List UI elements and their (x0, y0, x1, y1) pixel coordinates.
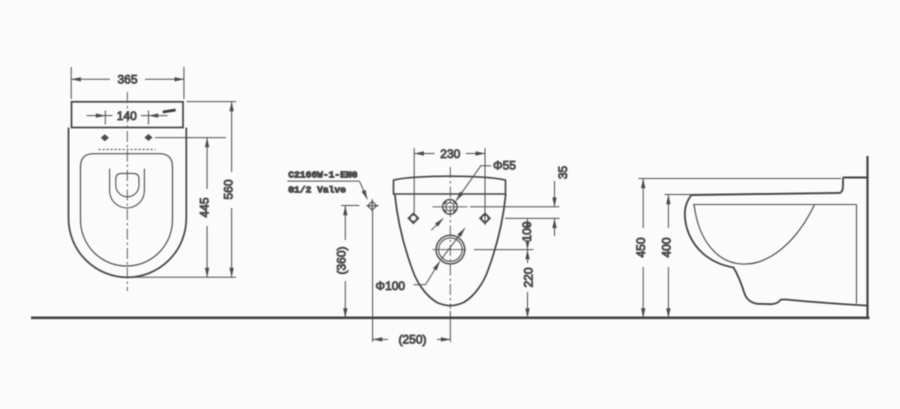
back panel vertical line (856, 205, 858, 304)
dim (250) dimension line (373, 338, 388, 340)
dim 445 top extension (leader from right hole) (155, 137, 226, 139)
dim 220 dimension line (527, 250, 529, 263)
dim 365 dimension line with arrows (71, 78, 110, 80)
inner water bowl (116, 173, 139, 196)
svg-text:560: 560 (222, 179, 236, 199)
svg-text:35: 35 (556, 166, 570, 180)
inner bowl U channel (110, 169, 145, 208)
water inlet flange ring (phi55) (443, 200, 458, 215)
svg-text:(250): (250) (398, 333, 426, 347)
dim (360) dimension line (344, 206, 346, 241)
dim 140 outside arrows (87, 115, 106, 117)
dim 35 outside arrows (554, 181, 556, 207)
svg-text:100: 100 (520, 221, 534, 241)
extension line at hole level to right stack (505, 217, 560, 219)
phi55 horizontal centerline (433, 206, 468, 208)
dim 560 top extension line (187, 101, 237, 103)
svg-text:365: 365 (117, 73, 137, 87)
svg-text:(360): (360) (335, 246, 349, 274)
dim 100 dimension line (527, 218, 529, 224)
outlet circle phi100 (436, 235, 465, 264)
flush button dash mark (163, 110, 176, 112)
svg-text:230: 230 (440, 147, 460, 161)
phi55 lower-left pointer arrow (431, 219, 443, 231)
mounting hole diamond right (144, 134, 152, 141)
outer bowl and trap profile (685, 195, 869, 306)
dim 365 extension lines (70, 67, 72, 99)
dim 445 dimension line (206, 138, 208, 189)
dim 230 extension lines (413, 148, 415, 213)
svg-text:450: 450 (634, 237, 648, 257)
body back top edge at wall (843, 177, 869, 179)
model number underline (287, 180, 359, 182)
svg-text:C2166W-1-ENG: C2166W-1-ENG (288, 170, 357, 181)
step from back top to seat line (840, 178, 844, 193)
bowl outer body outline (69, 128, 187, 278)
seat top line (691, 193, 840, 195)
dim 140 line segments (105, 115, 112, 117)
dim (250) right extension line (449, 311, 451, 342)
dim 560 dimension line (231, 102, 233, 172)
extension line at phi100 level to right stack (474, 249, 534, 251)
body top band (394, 176, 506, 194)
inner bowl arc (694, 205, 815, 265)
seat hinge dashed line (99, 149, 156, 151)
dim 140 tick extension lines (104, 111, 106, 125)
seat underside line (693, 204, 857, 206)
valve symbol diamond with cross (366, 199, 378, 212)
svg-text:400: 400 (660, 237, 674, 257)
mounting hole diamond left (101, 134, 109, 141)
dim 450 dimension line (642, 179, 644, 229)
cistern/tank rectangle (72, 102, 184, 128)
phi55 leader line (456, 166, 491, 201)
valve leader line (359, 181, 367, 199)
svg-text:140: 140 (117, 109, 137, 123)
phi100 horizontal centerline (433, 249, 466, 251)
extension line at phi55 level to right stack (470, 206, 560, 208)
flange bolt marks (444, 202, 456, 212)
dim 400 top extension line (665, 194, 693, 196)
dim 230 dimension line (414, 153, 434, 155)
body lower outline (395, 194, 506, 306)
phi100 axis diagonal through outlet (442, 228, 465, 259)
svg-text:Φ100: Φ100 (376, 279, 406, 293)
seat outline (81, 154, 173, 266)
phi100 leader line (426, 261, 440, 284)
phi100 label dash (414, 284, 426, 286)
dim 400 dimension line (667, 195, 669, 229)
dim (360) top tick (341, 205, 360, 207)
svg-text:445: 445 (198, 197, 212, 217)
dim 450 top extension line (639, 178, 842, 180)
mounting hole marker right (480, 213, 490, 223)
svg-text:220: 220 (522, 267, 536, 287)
vertical centerline of left view (126, 92, 128, 291)
mounting hole marker left (408, 213, 418, 223)
svg-text:G1/2 Valve: G1/2 Valve (288, 184, 346, 195)
dim 560 / 445 bottom extension line (131, 276, 236, 278)
dim (250) left extension line (valve drop) (372, 212, 374, 343)
floor line (31, 316, 870, 319)
middle view vertical centerline (449, 167, 451, 309)
wall line (866, 156, 868, 318)
svg-text:Φ55: Φ55 (493, 159, 516, 173)
